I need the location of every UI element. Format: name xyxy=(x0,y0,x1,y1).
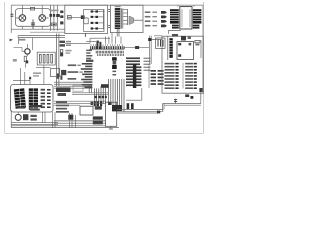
diode D3 xyxy=(91,16,104,18)
page edge left xyxy=(4,2,6,134)
wire xyxy=(182,63,184,89)
left label text col xyxy=(86,50,92,60)
wires above connector J1 xyxy=(13,68,30,85)
capacitor C9 xyxy=(131,103,134,109)
resistor row xyxy=(95,96,107,98)
bus lines mid xyxy=(54,82,92,88)
wire xyxy=(72,93,108,95)
node dot xyxy=(26,60,29,63)
bus lines middle xyxy=(54,101,106,105)
capacitor C8 xyxy=(127,103,130,109)
diode D6 xyxy=(124,46,149,49)
capacitor C6 xyxy=(185,94,189,97)
resistor R6 xyxy=(172,34,178,37)
schematic border right xyxy=(202,5,204,94)
capacitor C4 xyxy=(56,14,60,17)
varistor RV2 xyxy=(60,44,71,46)
schematic border top xyxy=(11,4,204,6)
wire xyxy=(70,113,76,128)
wire xyxy=(200,94,202,104)
label xyxy=(66,50,72,54)
resistor column R12 xyxy=(57,73,63,79)
wire xyxy=(151,39,162,41)
diode D1 xyxy=(52,23,57,26)
wire xyxy=(11,28,65,30)
wire xyxy=(168,30,181,34)
connector J1 contact rows xyxy=(41,89,51,108)
node blob left xyxy=(157,111,160,114)
MCU U1 pin name rows lower xyxy=(97,54,124,56)
capacitor C7 xyxy=(199,88,202,98)
diode D2 xyxy=(91,10,104,12)
wire xyxy=(154,35,162,37)
right section box xyxy=(162,36,203,93)
node ticks xyxy=(108,9,110,27)
resistor network RN2 xyxy=(156,38,166,48)
bus jog vertical xyxy=(163,104,164,112)
diode column D7 xyxy=(60,11,63,25)
component row xyxy=(91,102,112,105)
component cluster low xyxy=(95,106,102,109)
page edge right xyxy=(203,2,205,134)
transistor Q1 xyxy=(71,15,84,19)
MCU U1 left net labels xyxy=(81,63,93,88)
motor M2 xyxy=(39,5,49,21)
lower-left component rows xyxy=(18,105,42,111)
schematic border bottom xyxy=(11,127,119,129)
driver sub-box xyxy=(84,9,104,31)
signal row 2 xyxy=(145,16,167,19)
pin leads above xyxy=(91,44,122,46)
wire xyxy=(102,10,104,30)
resistor R5 xyxy=(99,42,101,49)
IC U3 body xyxy=(180,7,192,29)
node tick xyxy=(29,77,31,79)
label ic xyxy=(13,59,17,62)
DSP box xyxy=(105,102,116,126)
vertical bus right xyxy=(149,36,151,64)
wire xyxy=(53,5,55,30)
wire xyxy=(30,31,65,33)
signal row 1 xyxy=(145,11,167,14)
wire xyxy=(31,38,33,50)
bus to right upper xyxy=(163,104,201,106)
resistor R1 xyxy=(67,16,71,19)
diode D5 xyxy=(91,27,104,29)
component cluster xyxy=(56,87,71,96)
wire xyxy=(126,88,142,100)
right faint labels xyxy=(144,58,151,71)
MCU U1 top pin row xyxy=(90,46,125,49)
varistor RV1 xyxy=(60,41,71,43)
resistor R11 xyxy=(100,101,102,106)
switch S1 xyxy=(11,14,14,16)
wire xyxy=(11,112,58,128)
MCU U1 pin name rows xyxy=(96,51,124,54)
resistor network RN1 xyxy=(37,52,55,65)
wire xyxy=(106,33,121,44)
label POWL xyxy=(86,60,93,62)
bus to right lower xyxy=(117,109,164,113)
wire xyxy=(25,55,27,68)
ground xyxy=(109,126,113,129)
resistor R10 xyxy=(97,101,99,106)
bottom middle rows xyxy=(56,101,69,112)
diode array right xyxy=(193,25,200,29)
signal row 4 xyxy=(145,25,167,28)
connector wedge xyxy=(129,16,134,25)
wire xyxy=(167,36,169,60)
diode D4 xyxy=(91,22,104,24)
connector J1 pin matrix B xyxy=(29,88,38,109)
connector J1 pin matrix A xyxy=(14,88,26,109)
wire xyxy=(122,8,123,28)
schematic border left lower xyxy=(10,110,12,128)
pin list left column xyxy=(165,63,179,89)
bus wire left xyxy=(18,36,65,38)
transistor Q2 xyxy=(22,44,30,54)
label VCC xyxy=(50,10,59,12)
connector J2 pins xyxy=(169,38,172,58)
pointer mark xyxy=(10,39,13,42)
node blob xyxy=(191,96,194,99)
resistor R9 xyxy=(94,101,96,106)
node dot xyxy=(68,115,73,120)
wire xyxy=(22,26,42,29)
wire xyxy=(200,40,202,58)
resistor R8 xyxy=(195,40,200,45)
net tag rows right xyxy=(151,70,164,85)
IC U3 left pins xyxy=(170,9,179,23)
connector J1 box xyxy=(11,85,53,113)
net label bar xyxy=(133,64,136,88)
bus lines bottom xyxy=(11,121,106,126)
fuse F1 xyxy=(30,7,34,10)
MCU U1 pin number bar xyxy=(112,57,117,75)
capacitor C1 xyxy=(31,19,35,29)
component group xyxy=(23,114,37,120)
wire xyxy=(148,64,150,88)
resistor R2 xyxy=(24,56,26,61)
signal row 3 xyxy=(145,20,167,23)
diode array left xyxy=(172,25,179,29)
capacitor C3 xyxy=(53,14,55,17)
pin stubs xyxy=(123,9,128,24)
wire xyxy=(36,65,51,84)
crystal Y1 xyxy=(80,106,93,115)
capacitor cluster xyxy=(93,116,103,124)
junction node xyxy=(148,38,151,41)
regulator section box xyxy=(110,5,143,32)
capacitor C2 xyxy=(49,14,52,17)
wire xyxy=(178,5,194,6)
mid rows left of MCU xyxy=(68,64,83,79)
wire xyxy=(84,34,86,37)
capacitor C5 xyxy=(86,41,99,43)
transistor Q3 xyxy=(15,112,21,120)
resistor R3 xyxy=(60,50,62,56)
pot VR1 xyxy=(51,69,67,77)
label xyxy=(33,72,41,76)
wire fan below MCU xyxy=(109,79,124,112)
MCU U1 right net labels xyxy=(126,57,141,86)
IC U3 right pins xyxy=(193,9,202,23)
motor M1 xyxy=(16,5,26,21)
enclosure box (motors) xyxy=(15,9,50,27)
main vertical bus xyxy=(56,34,59,87)
wire xyxy=(14,47,23,51)
schematic border left upper xyxy=(10,5,12,33)
relay coil K1 xyxy=(84,18,88,24)
label box xyxy=(73,85,83,91)
node cluster xyxy=(101,84,108,88)
component on DSP xyxy=(112,105,122,111)
resistor R4 xyxy=(96,42,98,49)
pin list right column xyxy=(185,63,197,89)
page edge bottom xyxy=(5,133,204,135)
relay section box xyxy=(65,5,108,33)
label NTC xyxy=(19,39,25,41)
relay K2 box xyxy=(177,42,194,60)
wire xyxy=(127,9,129,25)
IC U2 body xyxy=(115,8,121,29)
wire xyxy=(65,38,110,43)
wire xyxy=(134,19,143,21)
wire xyxy=(56,5,58,30)
bus drop xyxy=(18,38,20,44)
wire fan left group xyxy=(89,84,105,106)
wire xyxy=(50,5,52,30)
IC U2 label xyxy=(115,6,121,7)
capacitor C10 xyxy=(174,99,177,104)
resistor R7 xyxy=(181,36,191,41)
wire xyxy=(117,29,119,37)
